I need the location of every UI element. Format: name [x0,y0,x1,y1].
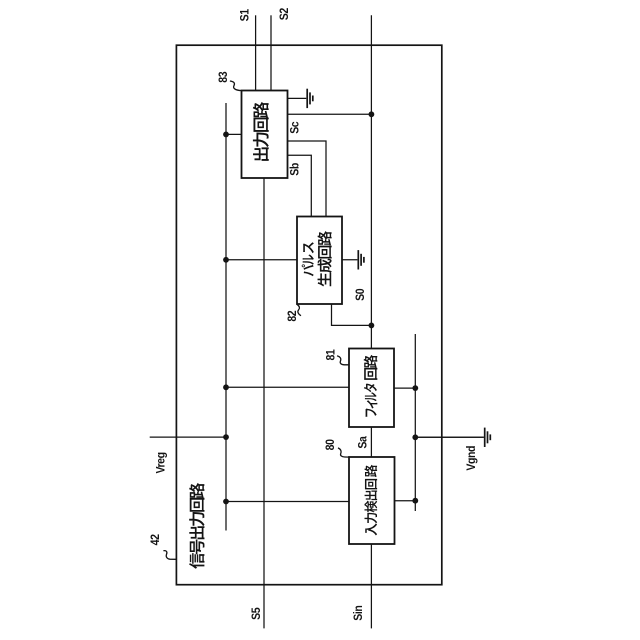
node Vreg rail junction to 83 [223,132,229,138]
svg-text:42: 42 [149,534,162,545]
text filter circuit in block 81 [364,355,378,417]
wire S0 from pulse gen circuit to Sin rail [332,303,372,325]
node Vreg rail junction to 81 [223,384,229,390]
wire Sin bottom segment to input detection circuit [370,543,372,628]
wire Vreg external terminal line [150,436,226,438]
text generation circuit (line 2) in block 82 [317,231,331,286]
svg-text:S1: S1 [239,8,252,21]
wire Sin vertical rail (top segment through S0 node) [370,15,372,349]
svg-text:83: 83 [217,72,230,83]
outer box: signal output circuit 42 boundary [176,45,441,585]
block input detection circuit 80 [349,457,395,544]
wire Sb from output circuit to pulse gen circuit [287,155,311,217]
block filter circuit 81 [349,349,394,428]
svg-text:82: 82 [287,311,300,322]
wire Vgnd external terminal line [415,436,484,438]
leader line for label 81 [337,356,350,365]
node Vreg rail junction at Vreg terminal [223,434,229,440]
wire S5 output line from output circuit to bottom [263,177,265,628]
wire S2 input line [270,15,272,92]
node S0 junction [369,323,375,329]
block output circuit 83 [242,91,288,179]
wire input detection circuit to Vgnd rail [394,500,416,502]
svg-text:Vgnd: Vgnd [465,446,478,471]
svg-text:81: 81 [325,349,338,361]
leader line for label 82 [297,304,301,315]
wire Sa from filter circuit to input detection circuit [370,426,372,458]
wire Sc from output circuit to pulse gen circuit [287,141,326,218]
svg-text:S5: S5 [250,607,263,620]
svg-text:Vreg: Vreg [155,452,168,474]
wire Vreg rail vertical [225,103,227,531]
wire Vreg rail to pulse gen circuit 82 [226,259,298,261]
node Vreg rail junction to 82 [223,257,229,263]
wire Vgnd rail vertical [414,334,416,511]
ground at output circuit 83 [287,89,313,108]
wire from output circuit right side to Sin rail [287,113,371,115]
node junction on Sin rail at output circuit [369,111,375,117]
wire Vreg rail to filter circuit 81 [226,386,350,388]
ground at Vgnd terminal [415,428,490,447]
text input detection circuit in block 80 [364,465,377,536]
svg-text:Sa: Sa [357,436,370,449]
wire filter circuit to Vgnd rail [393,387,415,389]
node Vgnd rail junction at input detection circuit [412,498,418,504]
block pulse generation circuit 82 [297,217,342,305]
ground at pulse gen circuit [341,250,364,269]
text signal output circuit label 42 [189,483,204,569]
text output circuit in block 83 [253,102,269,161]
wire Vreg rail to output circuit 83 [226,133,243,135]
node Vgnd rail junction at Vgnd terminal [412,434,418,440]
leader line for label 42 [163,551,176,560]
wire Vreg rail to input detection circuit 80 [226,501,350,503]
wire S1 input line [255,15,257,92]
svg-text:Sc: Sc [289,121,302,134]
svg-text:Sb: Sb [289,163,302,176]
svg-text:Sin: Sin [352,605,365,621]
node Vgnd rail junction at filter circuit [412,385,418,391]
svg-text:S2: S2 [278,8,291,20]
text pulse (line 1) in block 82 [302,242,314,276]
node Vreg rail junction to 80 [223,499,229,505]
svg-text:80: 80 [324,439,337,450]
svg-text:S0: S0 [354,289,367,301]
leader line for label 80 [338,448,350,457]
leader line for label 83 [230,81,242,91]
